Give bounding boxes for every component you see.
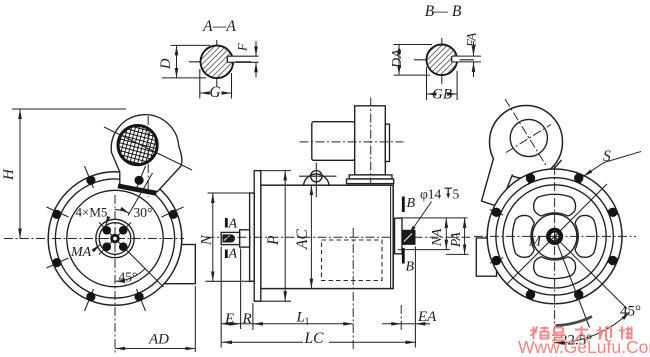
svg-text:GB: GB [432,87,452,103]
dimension DA [394,44,433,46]
centerline vertical [216,40,218,87]
22.5 degree arc [556,317,593,326]
rear lug housing [490,106,563,179]
shaft ring [548,230,561,243]
svg-text:M: M [528,234,542,250]
terminal box body [355,106,386,175]
bolt 157.5R [135,289,146,311]
30 degree line [128,173,153,216]
dimension N [208,192,251,194]
tangent line through box [104,127,192,170]
front shaft [221,232,239,244]
front shaft step [240,230,250,247]
45 radial line [555,236,627,308]
45 degree arc arrow [115,269,145,282]
svg-text:5: 5 [453,187,460,202]
section A mark top [225,218,228,228]
svg-text:30°: 30° [134,205,153,220]
bolt 67.5 [606,208,620,217]
body circle [67,190,163,286]
dimension G [199,69,201,99]
dimension GB [426,67,428,100]
terminal box base plate lower [347,179,394,184]
bolt 157.5 [574,288,583,302]
bolt 157.5L [85,289,96,311]
keyway notch [227,56,235,62]
cover ring [496,178,613,295]
lug notch [552,160,562,172]
cable gland mesh circle [118,126,157,165]
lug hole [510,119,547,156]
centerline horizontal [189,61,251,63]
terminal box side strip [385,124,389,161]
flange spigot [250,193,255,281]
svg-text:AC: AC [294,229,311,250]
eyebolt ring [311,171,322,182]
dimension D [171,44,211,46]
svg-text:Www.GeLufu.Com: Www.GeLufu.Com [518,337,650,357]
section B mark top [402,197,405,213]
motor body [261,185,393,288]
chinese char lu [552,328,565,341]
svg-text:L: L [296,310,305,326]
eyebolt centerlines [299,175,337,177]
svg-text:G: G [209,84,220,101]
svg-text:1: 1 [305,317,310,328]
centerline horizontal [414,59,474,61]
dimension PA [446,253,469,255]
dimension EA (arrows outside) [382,323,401,325]
svg-text:H: H [1,168,17,181]
bolt 112.5 [606,256,620,265]
svg-text:D: D [158,58,174,70]
bolt 67.5L [47,207,69,219]
chinese char ge [530,327,549,340]
horizontal centerline [474,235,636,237]
keyway notch [452,56,460,62]
eyebolt dome [304,174,330,185]
bolt 292.5 [490,208,504,217]
terminal box cable gland cylinder [312,122,355,161]
svg-text:A: A [228,247,238,262]
bolt 67.5R [162,207,184,219]
chinese char ji [597,327,611,341]
horizontal centerline [4,238,184,240]
body rear inner line [390,185,392,288]
bolt 202.5 [526,288,535,302]
terminal box housing [111,115,182,192]
hub diagonal crosshairs [99,223,131,255]
svg-text:A: A [228,217,238,232]
svg-text:45°: 45° [620,304,641,320]
bolt 22.5 [574,172,583,186]
rear hub [395,218,402,254]
dimension F (arrows outside) [255,41,257,56]
terminal box vertical centerline [370,98,372,186]
dimension H [12,108,126,110]
svg-text:MA: MA [70,245,92,260]
svg-text:FA: FA [464,33,479,48]
vertical centerline [114,195,116,353]
dimension P [254,170,291,172]
svg-text:R: R [242,311,252,327]
gland horizontal centerline [300,141,404,143]
centerline vertical [441,38,443,84]
svg-text:B: B [407,196,416,211]
keyway extension lines [452,55,481,57]
terminal box base plate upper [349,175,392,179]
flange outer circle [48,172,182,306]
center shaft hole [110,234,120,244]
stator dashed rectangle [322,240,383,281]
svg-text:E: E [224,311,234,327]
bolt 22.5R [135,166,146,188]
svg-text:PA: PA [448,231,463,248]
svg-text:EA: EA [417,309,437,325]
diagonal centerline [507,184,608,285]
bolt 22.5L [85,166,96,188]
22.5 radial line [555,236,590,327]
shaft section circle with hatch [427,45,458,76]
svg-text:F: F [235,42,250,52]
section A mark bottom [225,250,228,259]
svg-text:AD: AD [148,332,169,348]
cover inner circle [503,185,606,288]
svg-text:45°: 45° [119,270,138,285]
shaft section circle with hatch [201,46,234,79]
dimension L1 [253,323,353,325]
hub outer circle [96,219,134,257]
dimension R [241,323,253,325]
svg-text:N: N [199,234,215,246]
lug tail [482,159,513,208]
vent slot left [512,215,534,257]
lug hole centerlines [505,99,547,167]
bottom extension lines [220,247,222,348]
front flange plate [254,171,261,302]
bolt 247.5 [490,256,504,265]
svg-text:B— B: B— B [425,3,462,20]
svg-text:A—A: A—A [202,18,236,35]
front shaft section blob [223,234,236,242]
shaft center cross [549,235,560,237]
svg-text:DA: DA [390,49,405,69]
dimension AC [310,185,312,288]
rear shaft hatched [402,230,415,244]
vertical centerline [554,166,556,343]
dimension NA [398,217,468,219]
svg-text:4×M5: 4×M5 [76,205,108,220]
4 M5 holes [103,226,112,235]
vent slot bottom [534,257,576,279]
gland centerline [147,116,149,197]
main horizontal centerline [206,236,471,238]
vent slot right [575,215,597,257]
vent slot top [534,194,576,216]
fan cover outer circle [487,169,622,304]
30 degree arc arrow [115,210,129,214]
bolt 112.5L [47,258,69,268]
hub inner circle [99,223,131,255]
svg-text:P: P [265,235,282,246]
dimension E [221,323,240,325]
svg-text:NA: NA [429,228,444,247]
dimension FA (arrows outside) [473,41,475,56]
45 degree arc [555,312,630,343]
side conduit box (behind) [476,238,496,276]
chinese char xie [619,327,632,340]
svg-text:B: B [406,260,415,275]
L1 vertical centerline [352,228,354,351]
45 degree line bottom [130,253,164,287]
side conduit box (behind body) [164,245,196,284]
hub circle [532,214,577,259]
chinese char fu [575,326,588,341]
dimension LC [222,341,415,343]
keyway extension lines [227,55,258,57]
dimension AD [194,286,196,352]
flange inner ring [55,179,174,298]
section B mark bottom [402,248,405,264]
svg-text:LC: LC [304,330,325,347]
box mounting weld bar [118,184,158,196]
bolt 337.5 [526,172,535,186]
svg-text:φ14: φ14 [420,187,442,202]
